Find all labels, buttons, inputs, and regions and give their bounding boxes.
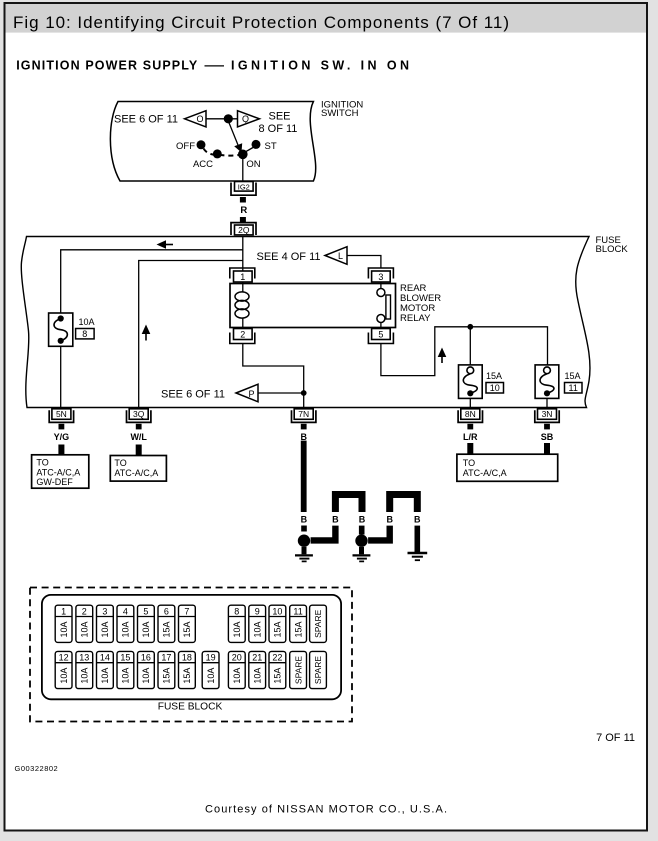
svg-text:2Q: 2Q bbox=[238, 225, 250, 235]
svg-text:2: 2 bbox=[240, 330, 245, 340]
panel spare fuse 2 bbox=[290, 651, 307, 688]
svg-text:12: 12 bbox=[59, 653, 69, 663]
fuse 11 15A bbox=[535, 365, 559, 399]
relay pin 2 bbox=[230, 333, 255, 344]
svg-text:TO: TO bbox=[36, 458, 48, 468]
connector arrow O bbox=[185, 111, 207, 127]
panel fuse 4 (10A) bbox=[117, 605, 134, 642]
panel fuse 10 (15A) bbox=[269, 605, 286, 642]
ground wire B from 7N bbox=[301, 441, 307, 512]
svg-text:G00322802: G00322802 bbox=[15, 764, 59, 773]
svg-text:Courtesy of NISSAN MOTOR CO.,: Courtesy of NISSAN MOTOR CO., U.S.A. bbox=[205, 804, 447, 816]
panel fuse 12 (10A) bbox=[55, 651, 72, 688]
svg-text:10A: 10A bbox=[121, 621, 131, 637]
flow arrow (up) bbox=[145, 332, 147, 341]
switch position OFF bbox=[197, 140, 206, 149]
wire fuse 8 to 5N bbox=[60, 346, 62, 407]
svg-text:7N: 7N bbox=[298, 409, 309, 419]
panel fuse 1 (10A) bbox=[55, 605, 72, 642]
svg-text:15A: 15A bbox=[273, 621, 283, 637]
junction node bbox=[224, 114, 233, 123]
svg-text:ST: ST bbox=[265, 141, 277, 152]
svg-text:15A: 15A bbox=[273, 668, 283, 684]
svg-text:Q: Q bbox=[242, 114, 249, 124]
svg-text:SEE 6 OF 11: SEE 6 OF 11 bbox=[114, 113, 178, 125]
svg-text:8N: 8N bbox=[465, 409, 476, 419]
svg-text:7 OF 11: 7 OF 11 bbox=[596, 732, 635, 744]
svg-text:3Q: 3Q bbox=[133, 409, 145, 419]
panel fuse 13 (10A) bbox=[76, 651, 93, 688]
svg-text:10A: 10A bbox=[206, 668, 216, 684]
svg-text:10A: 10A bbox=[59, 668, 69, 684]
panel fuse 11 (15A) bbox=[290, 605, 307, 642]
fuse number 11 bbox=[565, 383, 583, 394]
svg-text:10A: 10A bbox=[100, 621, 110, 637]
svg-text:IGNITION SW. IN ON: IGNITION SW. IN ON bbox=[231, 59, 409, 73]
svg-text:3: 3 bbox=[378, 272, 383, 282]
panel fuse 7 (15A) bbox=[179, 605, 196, 642]
wire fuse 10 to 8N bbox=[469, 398, 471, 407]
ground symbol bbox=[359, 547, 364, 554]
svg-text:21: 21 bbox=[252, 653, 262, 663]
svg-text:15A: 15A bbox=[486, 371, 502, 381]
flow arrow (left) bbox=[163, 244, 173, 246]
svg-text:TO: TO bbox=[114, 458, 126, 468]
wire O to Q bbox=[206, 118, 238, 120]
connector arrow L bbox=[325, 247, 347, 265]
svg-text:5: 5 bbox=[378, 330, 383, 340]
svg-text:7: 7 bbox=[184, 607, 189, 617]
svg-text:17: 17 bbox=[161, 653, 171, 663]
svg-text:FUSE BLOCK: FUSE BLOCK bbox=[158, 702, 223, 713]
svg-text:22: 22 bbox=[272, 653, 282, 663]
switch position ACC bbox=[213, 149, 222, 158]
panel fuse 16 (10A) bbox=[138, 651, 155, 688]
panel fuse 15 (10A) bbox=[117, 651, 134, 688]
fuse panel dashed border bbox=[30, 588, 352, 722]
svg-text:11: 11 bbox=[293, 607, 302, 617]
switch position ST bbox=[252, 140, 261, 149]
svg-text:10A: 10A bbox=[79, 317, 95, 327]
svg-text:B: B bbox=[301, 515, 308, 525]
svg-text:B: B bbox=[300, 432, 307, 442]
svg-text:1: 1 bbox=[240, 272, 245, 282]
wire stub bbox=[240, 197, 246, 203]
fuse 10 15A bbox=[459, 365, 483, 399]
svg-text:3: 3 bbox=[102, 607, 107, 617]
svg-text:14: 14 bbox=[100, 653, 110, 663]
svg-text:10A: 10A bbox=[141, 621, 151, 637]
connector 3N bbox=[535, 410, 559, 422]
svg-text:TO: TO bbox=[463, 458, 475, 468]
selector arrow to ON bbox=[228, 121, 238, 145]
svg-text:10A: 10A bbox=[100, 668, 110, 684]
svg-text:ON: ON bbox=[246, 159, 260, 170]
svg-text:4: 4 bbox=[123, 607, 128, 617]
svg-text:B: B bbox=[386, 515, 393, 525]
svg-text:IGNITION POWER SUPPLY: IGNITION POWER SUPPLY bbox=[16, 59, 198, 73]
ground link wire 2 bbox=[390, 495, 418, 513]
wire to ground G3 bbox=[415, 526, 421, 553]
connector 3Q bbox=[127, 410, 151, 422]
svg-text:ACC: ACC bbox=[193, 159, 213, 170]
svg-text:11: 11 bbox=[569, 383, 578, 393]
svg-text:SEE 4 OF 11: SEE 4 OF 11 bbox=[257, 251, 321, 263]
wire ON to IG2 bbox=[242, 159, 244, 182]
switch position ON bbox=[238, 150, 248, 160]
svg-text:BLOCK: BLOCK bbox=[596, 244, 629, 255]
fuse block outline bbox=[21, 237, 590, 408]
svg-text:B: B bbox=[414, 515, 421, 525]
svg-text:W/L: W/L bbox=[130, 432, 147, 442]
fuse number 10 bbox=[486, 383, 504, 394]
svg-text:15: 15 bbox=[120, 653, 130, 663]
wire to fuse 8 bbox=[61, 250, 243, 313]
svg-text:15A: 15A bbox=[162, 668, 172, 684]
box TO ATC-A/C,A (right) bbox=[457, 454, 558, 481]
ground link wire 1 bbox=[335, 495, 362, 513]
wire ST to ON bbox=[246, 148, 254, 152]
svg-text:—: — bbox=[205, 59, 225, 73]
connector 5N bbox=[49, 410, 73, 422]
junction node bbox=[467, 324, 473, 330]
wire L/R to box bbox=[467, 443, 473, 454]
svg-text:SPARE: SPARE bbox=[313, 609, 323, 638]
wire stub bbox=[240, 217, 246, 223]
wire relay pin 2 to 7N bbox=[243, 344, 304, 408]
wire to junction G1 bbox=[311, 526, 336, 541]
fuse number 8 bbox=[76, 329, 95, 339]
svg-text:SB: SB bbox=[541, 432, 554, 442]
wire 2Q to relay pin 1 bbox=[242, 237, 244, 272]
svg-text:19: 19 bbox=[206, 653, 216, 663]
svg-text:5N: 5N bbox=[56, 409, 67, 419]
wire relay pin 5 to fuses bbox=[381, 327, 548, 376]
svg-text:10A: 10A bbox=[252, 621, 262, 637]
panel fuse 21 (10A) bbox=[249, 651, 266, 688]
svg-text:10A: 10A bbox=[80, 621, 90, 637]
svg-text:15A: 15A bbox=[182, 621, 192, 637]
svg-text:O: O bbox=[196, 114, 203, 124]
svg-text:10A: 10A bbox=[252, 668, 262, 684]
svg-text:10A: 10A bbox=[232, 621, 242, 637]
svg-text:15A: 15A bbox=[182, 668, 192, 684]
svg-text:10A: 10A bbox=[232, 668, 242, 684]
wire W/L to box bbox=[136, 445, 142, 456]
relay body bbox=[230, 284, 396, 328]
wire to junction G2 bbox=[359, 526, 365, 535]
wire L to relay pin 3 bbox=[347, 256, 381, 268]
svg-text:8: 8 bbox=[82, 329, 87, 339]
panel fuse 6 (15A) bbox=[158, 605, 175, 642]
svg-text:10A: 10A bbox=[80, 668, 90, 684]
ignition switch body bbox=[110, 102, 315, 182]
svg-text:15A: 15A bbox=[162, 621, 172, 637]
svg-text:2: 2 bbox=[82, 607, 87, 617]
svg-text:15A: 15A bbox=[565, 371, 581, 381]
svg-text:L/R: L/R bbox=[463, 432, 478, 442]
wire P to junction bbox=[258, 392, 304, 394]
svg-text:ATC-A/C,A: ATC-A/C,A bbox=[463, 468, 507, 478]
svg-text:20: 20 bbox=[232, 653, 242, 663]
relay contact bbox=[380, 282, 382, 289]
svg-text:18: 18 bbox=[182, 653, 192, 663]
panel fuse 17 (15A) bbox=[158, 651, 175, 688]
svg-text:10: 10 bbox=[272, 607, 282, 617]
svg-text:8 OF 11: 8 OF 11 bbox=[259, 123, 298, 135]
svg-text:6: 6 bbox=[164, 607, 169, 617]
svg-text:SEE 6 OF 11: SEE 6 OF 11 bbox=[161, 388, 225, 400]
svg-text:1: 1 bbox=[61, 607, 66, 617]
svg-text:3N: 3N bbox=[542, 409, 553, 419]
junction node bbox=[301, 390, 307, 396]
panel fuse 14 (10A) bbox=[97, 651, 114, 688]
panel fuse 20 (10A) bbox=[228, 651, 245, 688]
wire to connector 3Q bbox=[139, 261, 243, 408]
svg-text:R: R bbox=[240, 205, 247, 216]
title bar bbox=[6, 4, 647, 33]
panel fuse 8 (10A) bbox=[228, 605, 245, 642]
relay coil bbox=[242, 282, 244, 292]
svg-text:10: 10 bbox=[490, 383, 500, 393]
svg-text:10A: 10A bbox=[59, 621, 69, 637]
ground junction G1 bbox=[298, 535, 310, 547]
svg-text:P: P bbox=[248, 389, 254, 399]
svg-text:ATC-A/C,A: ATC-A/C,A bbox=[114, 468, 158, 478]
ground symbol bbox=[302, 547, 307, 554]
flow arrow (up) bbox=[441, 355, 443, 364]
dashed wiper arc bbox=[204, 149, 241, 156]
svg-text:B: B bbox=[359, 515, 366, 525]
svg-text:16: 16 bbox=[141, 653, 151, 663]
wire SB to box bbox=[544, 443, 550, 454]
panel fuse 9 (10A) bbox=[249, 605, 266, 642]
svg-text:L: L bbox=[338, 251, 343, 261]
svg-text:Y/G: Y/G bbox=[54, 432, 70, 442]
svg-text:SPARE: SPARE bbox=[313, 656, 323, 685]
connector arrow Q bbox=[238, 111, 260, 127]
svg-text:B: B bbox=[332, 515, 339, 525]
svg-text:GW-DEF: GW-DEF bbox=[36, 477, 73, 487]
relay pin 1 bbox=[230, 268, 255, 279]
fuse panel body bbox=[42, 595, 341, 699]
svg-text:15A: 15A bbox=[293, 621, 303, 637]
svg-text:SWITCH: SWITCH bbox=[321, 108, 359, 119]
panel fuse 3 (10A) bbox=[97, 605, 114, 642]
svg-text:9: 9 bbox=[255, 607, 260, 617]
svg-text:SPARE: SPARE bbox=[293, 656, 303, 685]
panel fuse 2 (10A) bbox=[76, 605, 93, 642]
connector IG2 bbox=[231, 183, 256, 196]
svg-text:OFF: OFF bbox=[176, 141, 195, 152]
panel fuse 19 (10A) bbox=[202, 651, 219, 688]
panel fuse 5 (10A) bbox=[138, 605, 155, 642]
fuse 8 10A bbox=[49, 313, 73, 346]
connector 2Q bbox=[231, 223, 256, 235]
svg-text:Fig 10: Identifying Circuit Pr: Fig 10: Identifying Circuit Protection C… bbox=[13, 13, 509, 32]
panel spare fuse 1 bbox=[310, 605, 327, 642]
svg-text:5: 5 bbox=[143, 607, 148, 617]
panel fuse 22 (15A) bbox=[269, 651, 286, 688]
relay pin 5 bbox=[368, 333, 393, 344]
panel fuse 18 (15A) bbox=[179, 651, 196, 688]
wire fuse 11 to 3N bbox=[546, 398, 548, 407]
relay pin 3 bbox=[368, 268, 393, 279]
connector arrow P bbox=[236, 384, 258, 402]
panel spare fuse 3 bbox=[310, 651, 327, 688]
wire to junction G2 bbox=[368, 526, 390, 541]
wire junction to fuse 10 bbox=[469, 327, 471, 365]
svg-text:10A: 10A bbox=[121, 668, 131, 684]
connector 8N bbox=[458, 410, 482, 422]
svg-text:ATC-A/C,A: ATC-A/C,A bbox=[36, 467, 80, 477]
box TO ATC-A/C,A GW-DEF bbox=[32, 455, 89, 488]
svg-text:10A: 10A bbox=[141, 668, 151, 684]
svg-text:RELAY: RELAY bbox=[400, 313, 431, 324]
connector 7N bbox=[292, 410, 316, 422]
box TO ATC-A/C,A bbox=[110, 456, 166, 482]
ground symbol bbox=[408, 552, 428, 554]
svg-text:13: 13 bbox=[79, 653, 89, 663]
svg-text:SEE: SEE bbox=[269, 111, 291, 123]
svg-text:IG2: IG2 bbox=[238, 182, 250, 191]
wire Y/G to box bbox=[58, 445, 64, 456]
svg-text:8: 8 bbox=[234, 607, 239, 617]
ground junction G2 bbox=[355, 535, 367, 547]
